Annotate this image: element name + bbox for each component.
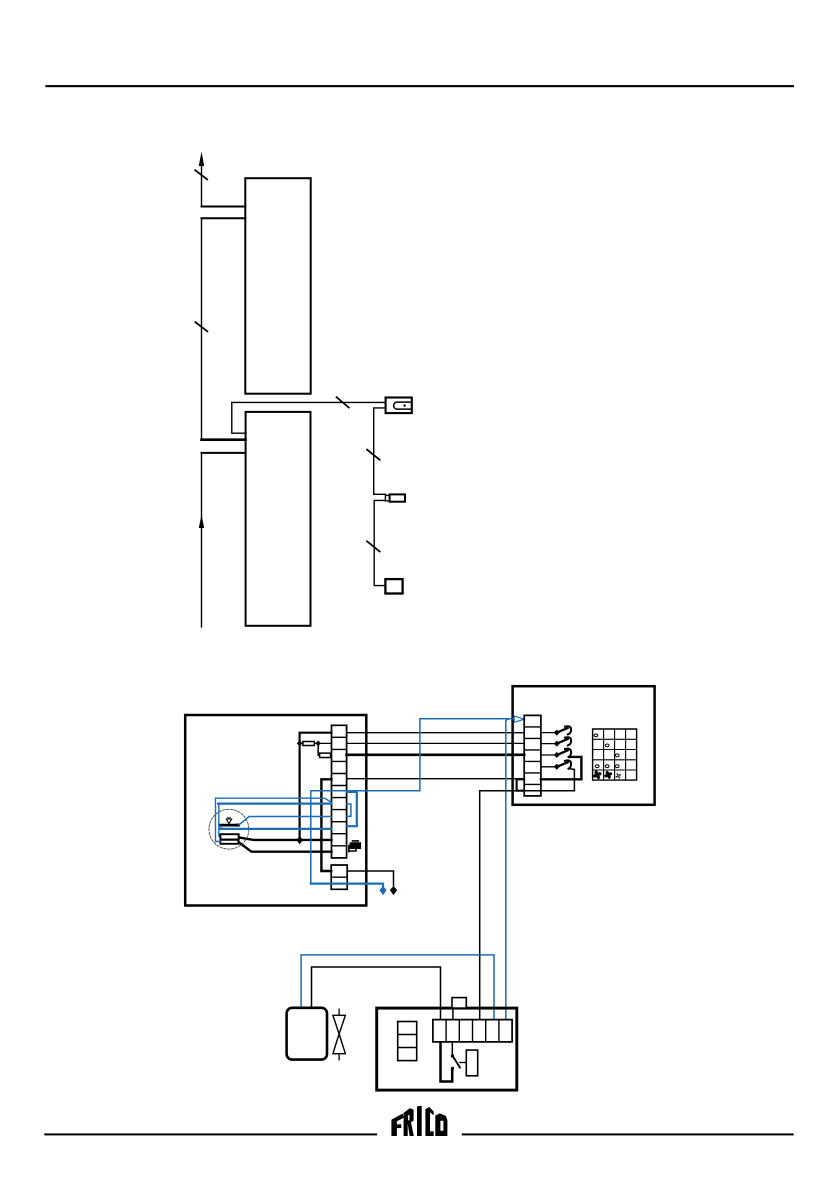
- wire: motor element 1 lead to terminal 10 (thick): [239, 837, 332, 840]
- FRICO logo: [391, 1106, 447, 1136]
- grid position dots: [594, 734, 598, 737]
- pin arrow black: [390, 886, 397, 895]
- blue arrow into control terminal 1: [514, 716, 524, 722]
- wire: lower connector block pin out (black): [347, 871, 393, 890]
- motor winding element 2: [220, 840, 238, 844]
- fuse box above room control: [452, 998, 466, 1009]
- cable slash mark: [367, 450, 380, 460]
- snowflake icon: [615, 773, 621, 779]
- jumper plug glyph right of terminals 10-11: [350, 843, 360, 849]
- junction arrow (plug pin) onto motor lead: [296, 836, 302, 844]
- valve symbol stem: [338, 1009, 340, 1060]
- wire: terminal 5 down-link to lower connector block (thick): [321, 779, 331, 871]
- node: junction dot A: [297, 740, 303, 746]
- transformer block (3 poles): [398, 1022, 417, 1061]
- switch contact S1: [554, 730, 560, 736]
- connector X1 pin dot: [403, 404, 405, 406]
- wire: contact feed 2: [541, 743, 556, 745]
- heater unit 2: [246, 412, 311, 626]
- heater unit 1: [245, 178, 310, 394]
- footer rule left: [44, 1133, 377, 1135]
- connector X1 inner contact: [394, 402, 412, 409]
- wire: from connector X2 down: [374, 500, 385, 585]
- arrowhead up: [199, 152, 204, 167]
- pin arrow blue: [379, 886, 386, 895]
- speed selector grid: [593, 729, 637, 780]
- wire: contact feed 3: [541, 754, 556, 756]
- wire: top stub lower: [202, 217, 246, 219]
- jumper bracket terminals 6-7 (left side): [517, 779, 525, 790]
- stat contact dots: [451, 1054, 454, 1057]
- terminal strip X20 (7 poles): [524, 715, 541, 796]
- wire: fuse to terminal 2: [452, 1008, 454, 1020]
- wire: motor element 2 lead to terminal 11 (thick): [238, 842, 331, 852]
- wire: from connector X1 down: [374, 408, 386, 494]
- valve actuator box: [287, 1008, 327, 1060]
- wire: control terminal1 feed crossing strip down to plug (blue): [311, 719, 420, 884]
- wire: resistor feed: [300, 742, 332, 744]
- wire: left drop between units: [201, 218, 203, 440]
- wire: L1 terminal1 to control terminal2: [347, 732, 525, 734]
- wire: terminal3 to control terminal4 (thick): [347, 753, 525, 756]
- connector X2 small plug tip: [385, 495, 389, 501]
- wire: terminal 1 left run and drop to motor lead: [300, 733, 332, 838]
- motor circle M1: [209, 809, 249, 849]
- room terminal row (6 poles): [433, 1020, 512, 1042]
- cable slash mark: [337, 397, 349, 408]
- cable slash mark: [367, 541, 380, 551]
- fan icon speed high: [593, 770, 602, 779]
- wire: terminal5 to control terminal6: [347, 778, 525, 780]
- wire: branch from node B down to diode: [318, 743, 319, 755]
- wire: thermal contact left lead to terminal 9 (thick): [220, 826, 222, 829]
- wire: blue branch down to room unit: [505, 722, 507, 1020]
- node: junction dot B: [315, 740, 321, 746]
- stat sensor body: [466, 1050, 477, 1076]
- contact end dot: [236, 824, 239, 827]
- wire: mid stub upper (thick): [202, 438, 246, 441]
- diode/component box to terminal 3: [320, 753, 331, 757]
- wire: element1 blue lead (thick inner L): [218, 804, 220, 836]
- wire: black loop to valve actuator: [312, 967, 441, 1020]
- thermal contact bar: [220, 824, 238, 827]
- resistor R1: [303, 742, 314, 746]
- wire: terminal1 down to stat contact (thick U): [441, 1042, 453, 1082]
- room control box: [377, 1008, 517, 1090]
- cable slash mark: [195, 170, 207, 179]
- stat actuator link: [460, 1062, 466, 1064]
- wire: branch to connector: [232, 401, 386, 403]
- switch contact S3: [554, 752, 560, 758]
- fan icon speed low: [604, 771, 612, 779]
- wire: blue run to control terminal 1: [420, 718, 517, 720]
- wire: terminal2 down to stat contact: [451, 1042, 453, 1055]
- jumper loop terminal7-terminal8 (right side): [347, 804, 351, 816]
- wire: top stub upper: [202, 206, 246, 208]
- connector X1 (jack) body: [386, 398, 412, 414]
- wire: thermal contact right lead to terminal 8: [239, 817, 332, 826]
- footer rule right: [462, 1133, 794, 1135]
- switch contact S2: [554, 741, 560, 747]
- wire: S4 output to terminal 7: [570, 769, 575, 791]
- wire: S3 output to terminal 6 (thick): [541, 757, 582, 779]
- wire: branch L from unit link down to unit 2: [232, 402, 246, 433]
- wire: lower blue run to pin (thick): [311, 884, 383, 890]
- connector X2 body: [390, 494, 405, 501]
- wire: blue loop to valve actuator: [301, 955, 494, 1020]
- right control enclosure box: [513, 686, 655, 805]
- wire: contact feed 4: [541, 766, 556, 768]
- wire: element2 blue lead (thin outer L): [216, 798, 332, 841]
- terminal strip X10 (11 poles): [332, 725, 347, 858]
- wire: terminal2 to control terminal3: [347, 742, 525, 744]
- jumper loop terminal6-terminal9 (right side, thick): [347, 792, 357, 826]
- wire: contact feed 1: [541, 732, 556, 734]
- left unit enclosure box: [185, 715, 366, 906]
- stat switch blade: [453, 1057, 460, 1068]
- thermal sensor symbol: [226, 819, 231, 824]
- arrowhead up on lower riser: [199, 515, 204, 529]
- header rule: [45, 85, 794, 87]
- motor winding element 1: [220, 834, 238, 839]
- termination box: [385, 579, 402, 593]
- wire: supply riser with up arrow: [201, 163, 203, 207]
- wire: terminal 7 run out to room stat (left): [480, 791, 575, 1020]
- valve symbol (bowtie): [333, 1015, 346, 1053]
- wire: lower riser with up arrow: [201, 453, 203, 627]
- cable slash mark: [195, 322, 207, 331]
- switch contact S4: [554, 764, 560, 770]
- lower connector block (2 poles): [331, 865, 347, 889]
- wire: mid stub lower: [202, 452, 246, 454]
